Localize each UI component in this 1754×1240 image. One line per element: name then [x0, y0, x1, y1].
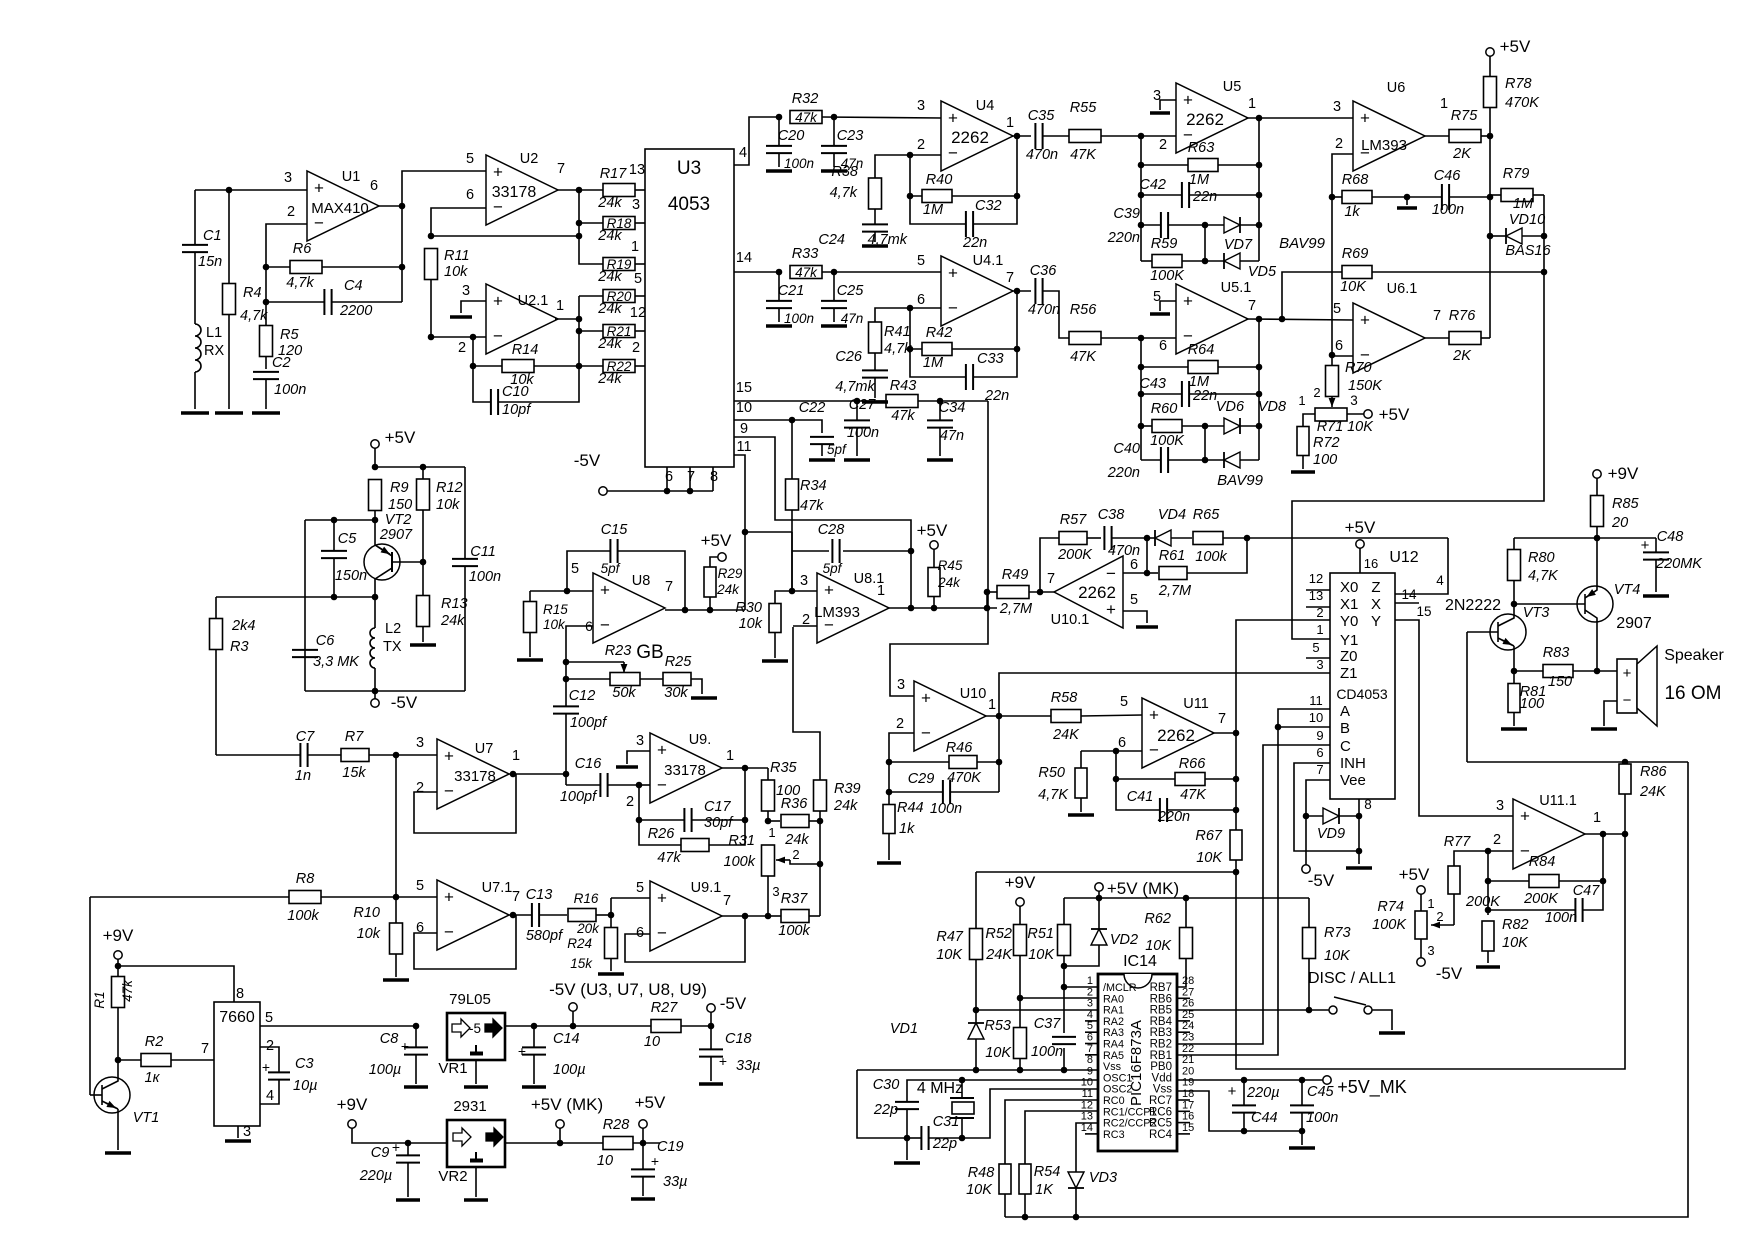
svg-text:6: 6 [1335, 338, 1343, 354]
svg-text:1M: 1M [923, 202, 944, 218]
pot R23 GB [566, 661, 624, 663]
svg-text:C37: C37 [1034, 1016, 1062, 1032]
op-amp U2 33178 [486, 155, 558, 225]
inductor L2 TX [370, 628, 375, 668]
wire output feedback column [1602, 834, 1604, 881]
svg-text:C18: C18 [725, 1031, 752, 1047]
svg-text:33178: 33178 [492, 184, 537, 201]
capacitor C32 [910, 196, 966, 224]
svg-text:3: 3 [800, 573, 808, 589]
svg-text:3: 3 [1316, 657, 1323, 672]
svg-text:7: 7 [723, 893, 731, 909]
ground C27 [844, 458, 870, 462]
svg-text:U9.: U9. [689, 732, 712, 748]
ground R50 [1068, 813, 1094, 817]
svg-text:R54: R54 [1034, 1164, 1061, 1180]
svg-text:/MCLR: /MCLR [1103, 982, 1137, 994]
svg-text:R1: R1 [92, 991, 107, 1008]
svg-text:C29: C29 [908, 771, 935, 787]
resistor R10 [395, 897, 397, 923]
svg-text:RC6: RC6 [1149, 1106, 1172, 1118]
svg-text:R49: R49 [1002, 567, 1029, 583]
svg-text:C26: C26 [835, 349, 863, 365]
svg-text:2931: 2931 [453, 1098, 486, 1115]
diode VD1 [975, 1010, 977, 1023]
svg-text:47k: 47k [795, 110, 818, 125]
capacitor C40 [1141, 459, 1161, 461]
svg-text:RA3: RA3 [1103, 1027, 1124, 1039]
svg-text:47k: 47k [891, 408, 915, 424]
wire U6.1 pin6 [1332, 355, 1353, 357]
wire U8.1 pin3 [792, 590, 817, 592]
svg-text:+5V: +5V [1399, 865, 1430, 884]
svg-text:47k: 47k [120, 979, 135, 1002]
svg-text:R63: R63 [1188, 140, 1215, 156]
svg-text:R77: R77 [1444, 834, 1472, 850]
svg-text:RA5: RA5 [1103, 1050, 1124, 1062]
wire R15 to U8 pin5 [530, 590, 593, 592]
resistor R18 [579, 222, 603, 224]
svg-text:+: + [657, 889, 667, 908]
regulator VR1 79L05 [447, 1013, 505, 1060]
svg-text:22p: 22p [873, 1102, 898, 1118]
svg-text:U11: U11 [1183, 696, 1209, 712]
ground R68 C46 [1406, 197, 1408, 205]
wire R67 node down to PB0 row [1236, 834, 1625, 1069]
svg-text:2200: 2200 [339, 303, 372, 319]
svg-text:7: 7 [687, 469, 695, 485]
resistor R68 [1332, 196, 1342, 198]
capacitor C8 [413, 1023, 420, 1030]
terminal +5V C19 [640, 1140, 647, 1147]
svg-text:PB0: PB0 [1150, 1061, 1172, 1073]
svg-text:8: 8 [1364, 797, 1372, 812]
svg-text:24K: 24K [985, 947, 1013, 963]
svg-text:IC14: IC14 [1123, 953, 1157, 970]
svg-text:22: 22 [1182, 1043, 1194, 1055]
ground C14 [522, 1085, 546, 1089]
capacitor C43 [1141, 393, 1182, 395]
svg-text:5: 5 [634, 271, 642, 287]
ground C25 [821, 324, 847, 328]
wire U4 output [1012, 135, 1031, 137]
wire VT3 base row [1467, 761, 1688, 763]
svg-text:GB: GB [636, 642, 663, 663]
capacitor C17 [639, 785, 684, 820]
svg-text:R5: R5 [280, 327, 299, 343]
ground C21 [766, 324, 792, 328]
capacitor C31 [907, 1137, 921, 1139]
resistor R60 [1141, 425, 1152, 427]
capacitor C39 [1141, 224, 1161, 226]
svg-text:15: 15 [1416, 604, 1431, 619]
U12 pin8 ground [1358, 799, 1360, 864]
wire U8 output [665, 609, 745, 611]
capacitor C37 [1063, 987, 1065, 1033]
capacitor C6 on left rail [292, 649, 318, 651]
wire +5V rail osc [374, 448, 376, 467]
node R1 R2 VT1 collector [115, 1057, 122, 1064]
svg-text:R64: R64 [1188, 342, 1215, 358]
terminal +9V second [348, 1120, 356, 1128]
svg-text:9: 9 [740, 421, 748, 437]
svg-text:LM393: LM393 [814, 604, 860, 621]
svg-text:2k4: 2k4 [231, 618, 255, 634]
ground speaker [1591, 727, 1617, 731]
svg-text:9: 9 [1316, 728, 1323, 743]
svg-text:R2: R2 [145, 1034, 164, 1050]
svg-text:C39: C39 [1113, 206, 1140, 222]
svg-text:C: C [1340, 738, 1351, 755]
VR2 ground [475, 1167, 477, 1197]
svg-text:+: + [444, 888, 454, 907]
svg-text:100k: 100k [1195, 549, 1227, 565]
wire MCLR pull network [1063, 898, 1065, 925]
capacitor C22 [810, 436, 834, 438]
U7 feedback loop [414, 774, 516, 833]
svg-text:C2: C2 [272, 355, 291, 371]
svg-text:R10: R10 [353, 905, 380, 921]
svg-text:RC0: RC0 [1103, 1095, 1125, 1107]
wire RC1 to R54 [1025, 1111, 1098, 1164]
diode VD7 [1205, 224, 1224, 226]
svg-text:24k: 24k [937, 575, 961, 590]
U12 INH ground [1294, 763, 1359, 851]
resistor R14 [472, 337, 474, 366]
svg-text:47k: 47k [657, 850, 681, 866]
resistor R85 [1596, 478, 1598, 496]
IC U3 4053 [645, 149, 734, 467]
wire U7.1 output [509, 914, 532, 916]
op-amp U5.1 [1176, 284, 1248, 354]
wire MCLR [1061, 984, 1068, 991]
svg-text:4,7K: 4,7K [1038, 787, 1069, 803]
svg-text:U7.1: U7.1 [482, 880, 513, 896]
svg-text:470n: 470n [1108, 543, 1140, 559]
capacitor C14 [533, 1026, 535, 1047]
wire out to R49 [986, 592, 988, 608]
svg-text:Z0: Z0 [1340, 648, 1358, 665]
resistor R3 2k4 [215, 597, 217, 619]
svg-text:27: 27 [1182, 986, 1194, 998]
resistor R6 [266, 266, 290, 268]
svg-text:R78: R78 [1505, 76, 1532, 92]
svg-text:+5V: +5V [385, 428, 416, 447]
ground R13 [410, 643, 436, 647]
ground C26 [862, 400, 888, 404]
svg-text:11: 11 [1309, 693, 1323, 708]
svg-text:OSC2: OSC2 [1103, 1084, 1132, 1096]
svg-text:VD4: VD4 [1158, 507, 1186, 523]
svg-text:3: 3 [772, 884, 779, 899]
svg-text:10K: 10K [936, 947, 963, 963]
resistor R55 [1069, 130, 1101, 143]
svg-text:4 MHz: 4 MHz [917, 1080, 963, 1097]
svg-text:7: 7 [1218, 711, 1226, 727]
svg-text:C28: C28 [818, 522, 845, 538]
wire U4.1 pin6 [875, 308, 941, 322]
svg-text:R46: R46 [946, 740, 974, 756]
wire RB5 to switch [1177, 1009, 1309, 1011]
svg-text:−: − [921, 724, 931, 743]
svg-text:+: + [651, 1153, 659, 1169]
wire R79 column right [1292, 195, 1544, 639]
svg-text:TX: TX [383, 639, 402, 655]
svg-text:2: 2 [266, 1038, 274, 1054]
svg-text:−: − [444, 782, 454, 801]
IC U12 CD4053 [1330, 573, 1395, 799]
svg-text:+: + [1228, 1083, 1237, 1100]
svg-text:R75: R75 [1451, 108, 1479, 124]
ground C2 [252, 411, 280, 415]
ground U5.1 pin5 [1160, 301, 1176, 311]
svg-text:100n: 100n [1432, 202, 1464, 218]
svg-text:X0: X0 [1340, 579, 1358, 596]
resistor R70 [1326, 366, 1339, 397]
svg-text:1M: 1M [923, 355, 944, 371]
svg-text:C21: C21 [778, 283, 805, 299]
svg-text:2,7M: 2,7M [999, 601, 1033, 617]
svg-text:R30: R30 [735, 600, 762, 616]
wire OSC2 [962, 1089, 1098, 1138]
ground U10.1 pin5 [1123, 611, 1147, 623]
svg-text:R23: R23 [605, 643, 632, 659]
svg-text:470n: 470n [1028, 302, 1060, 318]
resistor R13 [417, 596, 430, 627]
svg-text:10: 10 [597, 1153, 613, 1169]
svg-text:C9: C9 [371, 1145, 390, 1161]
svg-text:30k: 30k [664, 685, 688, 701]
op-amp U1 MAX410 [307, 171, 379, 241]
svg-text:1: 1 [631, 239, 639, 255]
ground C24 [862, 244, 888, 248]
svg-text:1: 1 [1316, 622, 1323, 637]
svg-text:+: + [657, 741, 667, 760]
svg-text:R37: R37 [781, 891, 809, 907]
resistor R49 [987, 591, 997, 593]
svg-text:R84: R84 [1529, 854, 1556, 870]
svg-text:10: 10 [1309, 710, 1323, 725]
svg-text:10K: 10K [1347, 419, 1374, 435]
svg-text:3: 3 [243, 1124, 251, 1140]
U12 pin15 Y wire [1395, 620, 1513, 816]
svg-text:C36: C36 [1030, 263, 1058, 279]
svg-text:Y1: Y1 [1340, 632, 1358, 649]
svg-text:15: 15 [1182, 1122, 1194, 1134]
resistor R35 [767, 768, 769, 780]
wire pin2 column [1487, 851, 1489, 915]
svg-text:24k: 24k [716, 582, 740, 597]
svg-text:3: 3 [462, 283, 470, 299]
svg-text:220µ: 220µ [1246, 1085, 1280, 1101]
op-amp U10.1 2262 [1054, 556, 1123, 628]
diode VD10 BAS16 [1506, 228, 1522, 244]
resistor R86 [1619, 764, 1631, 794]
inductor L1 RX [195, 324, 201, 372]
svg-text:8: 8 [236, 986, 244, 1002]
U9.1 feedback loop [625, 916, 745, 962]
resistor R45 [933, 549, 935, 567]
svg-text:+: + [392, 1139, 400, 1155]
op-amp U4.1 [941, 256, 1013, 326]
svg-text:100n: 100n [1031, 1044, 1063, 1060]
resistor R2 [118, 1059, 141, 1061]
op-amp U7.1 [437, 880, 509, 950]
node VT4 collector [1594, 668, 1601, 675]
resistor R22 [579, 365, 603, 367]
svg-text:R12: R12 [436, 480, 463, 496]
svg-text:C45: C45 [1307, 1084, 1335, 1100]
ground U9 pin3 [627, 751, 650, 764]
svg-text:+: + [1623, 665, 1632, 682]
svg-text:RC4: RC4 [1149, 1129, 1173, 1141]
svg-text:C25: C25 [837, 283, 865, 299]
resistor R20 [603, 290, 635, 303]
svg-text:7: 7 [1047, 571, 1055, 587]
wire U6.1 output [1424, 337, 1450, 339]
svg-text:5: 5 [466, 151, 474, 167]
svg-text:100n: 100n [784, 311, 814, 326]
svg-text:200K: 200K [1465, 894, 1501, 910]
svg-text:R65: R65 [1193, 507, 1221, 523]
svg-text:R76: R76 [1449, 308, 1477, 324]
svg-text:100k: 100k [778, 923, 810, 939]
resistor R72 [1297, 427, 1309, 456]
ground VT1 [105, 1151, 131, 1155]
U12 pin C wire [1177, 745, 1330, 1044]
svg-text:VD2: VD2 [1110, 932, 1138, 948]
node R51 VD2 [1061, 963, 1068, 970]
wire to U9 pin2 [639, 784, 650, 786]
svg-text:4: 4 [739, 145, 747, 161]
svg-text:2: 2 [1087, 986, 1093, 998]
svg-text:12: 12 [1081, 1099, 1093, 1111]
svg-text:24k: 24k [784, 832, 809, 848]
svg-text:Z1: Z1 [1340, 665, 1358, 682]
svg-text:23: 23 [1182, 1032, 1194, 1044]
svg-text:150: 150 [388, 497, 412, 513]
VR1 output wire [505, 1025, 651, 1027]
resistor R69 [1282, 272, 1342, 319]
svg-text:5: 5 [1120, 694, 1128, 710]
wire U2.1 output [555, 318, 579, 320]
svg-text:+5V: +5V [701, 531, 732, 550]
resistor R40 [910, 155, 922, 196]
resistor R46 [889, 761, 949, 763]
wire U4 pin2 [875, 155, 941, 178]
capacitor C28 [792, 550, 829, 552]
svg-text:R66: R66 [1179, 756, 1207, 772]
svg-text:100pf: 100pf [560, 789, 598, 805]
svg-text:+: + [1149, 706, 1159, 725]
svg-text:VR2: VR2 [438, 1168, 467, 1185]
svg-text:U3: U3 [677, 158, 701, 179]
capacitor C18 [710, 1026, 712, 1049]
svg-text:6: 6 [636, 925, 644, 941]
resistor R66 [1116, 778, 1175, 780]
svg-text:X: X [1371, 596, 1381, 613]
svg-text:VD6: VD6 [1216, 399, 1245, 415]
svg-text:R15: R15 [543, 602, 568, 617]
svg-text:5pf: 5pf [827, 442, 847, 457]
svg-text:C33: C33 [977, 351, 1004, 367]
svg-text:RC3: RC3 [1103, 1129, 1125, 1141]
svg-text:1: 1 [1593, 810, 1601, 826]
wire +5VMK to R73 [1308, 898, 1310, 928]
wire U11.1 pin2 [1488, 850, 1513, 852]
svg-text:+: + [948, 109, 958, 128]
wire U8 pin6 column [566, 626, 593, 679]
svg-text:6: 6 [1316, 745, 1323, 760]
resistor R11 [425, 249, 438, 280]
ground C19 [631, 1197, 655, 1201]
svg-text:BAV99: BAV99 [1217, 472, 1264, 489]
diode VD2 [1064, 945, 1099, 966]
svg-text:16: 16 [1364, 556, 1378, 571]
svg-text:1: 1 [1298, 393, 1305, 408]
ground R15 [517, 658, 543, 662]
svg-text:3: 3 [1087, 998, 1093, 1010]
svg-text:R38: R38 [831, 164, 858, 180]
capacitor C44 [1243, 1080, 1245, 1105]
svg-text:U11.1: U11.1 [1539, 793, 1577, 809]
svg-text:3: 3 [1496, 798, 1504, 814]
svg-text:2: 2 [416, 780, 424, 796]
op-amp U8.1 LM393 [817, 573, 889, 643]
wire +9V to VR2 [352, 1128, 447, 1143]
svg-text:200K: 200K [1523, 891, 1559, 907]
svg-text:1: 1 [1440, 96, 1448, 112]
svg-text:+: + [824, 581, 834, 600]
resistor R26 [639, 820, 681, 845]
svg-text:2: 2 [1493, 832, 1501, 848]
svg-text:R8: R8 [296, 871, 315, 887]
potentiometer R71 [1331, 398, 1333, 407]
svg-text:5: 5 [636, 880, 644, 896]
svg-text:4,7k: 4,7k [240, 308, 268, 324]
wire U8.1 output [889, 607, 997, 609]
resistor R73 [1303, 928, 1316, 959]
svg-text:1: 1 [768, 825, 775, 840]
svg-text:1k: 1k [899, 821, 915, 837]
svg-text:R60: R60 [1151, 401, 1178, 417]
wire C12 column [565, 774, 567, 785]
svg-text:R85: R85 [1612, 496, 1640, 512]
svg-text:5: 5 [917, 253, 925, 269]
svg-text:R58: R58 [1051, 690, 1078, 706]
svg-text:5: 5 [416, 878, 424, 894]
svg-text:2: 2 [792, 847, 799, 862]
svg-text:−: − [1623, 692, 1632, 709]
svg-text:47n: 47n [841, 311, 864, 326]
wire RC2 to VD3 [1076, 1123, 1098, 1172]
svg-text:24k: 24k [597, 269, 622, 285]
resistor R17 [603, 184, 635, 197]
svg-text:22n: 22n [962, 235, 987, 251]
resistor R27 [651, 1020, 681, 1033]
capacitor C42 [1141, 194, 1182, 196]
svg-text:R9: R9 [390, 480, 409, 496]
wire +5VMK rail PIC [1064, 897, 1309, 899]
svg-text:U7: U7 [475, 741, 494, 757]
svg-text:Vdd: Vdd [1152, 1072, 1172, 1084]
svg-text:2262: 2262 [1186, 110, 1224, 129]
U5.1 output column [1246, 319, 1353, 320]
svg-text:VD8: VD8 [1258, 399, 1286, 415]
svg-text:U6.1: U6.1 [1387, 281, 1418, 297]
ground R81 [1501, 727, 1527, 731]
svg-text:RB1: RB1 [1150, 1050, 1172, 1062]
